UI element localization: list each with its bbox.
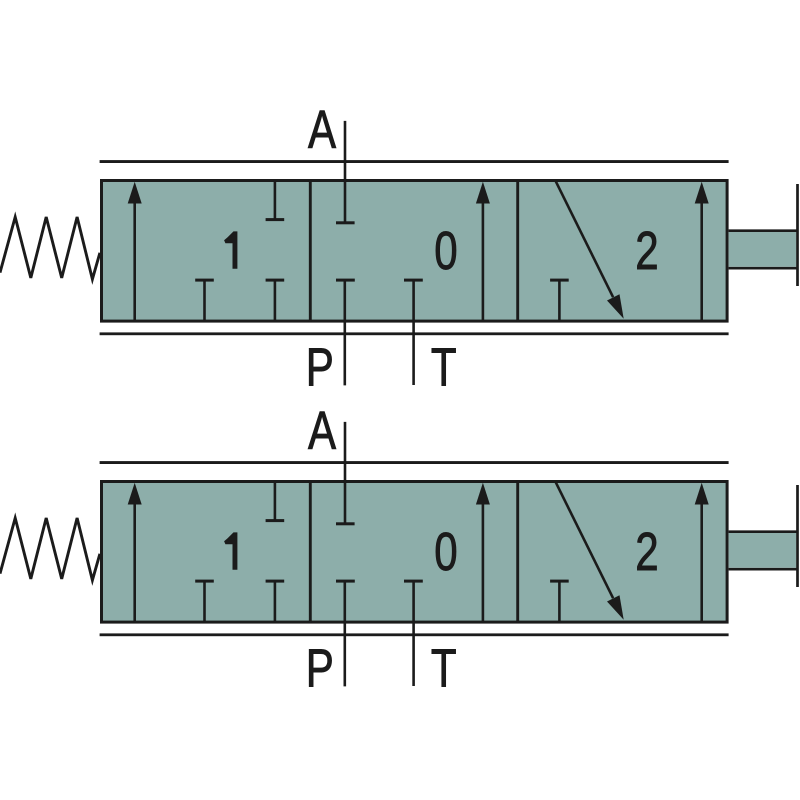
lower rail line (V2) <box>100 633 729 636</box>
divider between position 0 and 2 (V2) <box>516 481 519 624</box>
svg-text:T: T <box>431 338 457 398</box>
port A line with blocked end (V1) <box>336 121 355 224</box>
position 1 blocked port top (V1) <box>266 182 285 221</box>
return spring (V1) <box>0 217 100 279</box>
position 2 diagonal flow arrow (V2) <box>556 482 624 620</box>
actuator end plate line (V1) <box>796 184 799 286</box>
upper rail line (V1) <box>100 160 729 163</box>
port T line with blocked end (V2) <box>404 580 423 686</box>
port A line with blocked end (V2) <box>336 422 355 525</box>
divider between position 0 and 2 (V1) <box>516 180 519 323</box>
return spring (V2) <box>0 518 100 580</box>
position 2 flow arrow up right (V2) <box>695 483 709 622</box>
port P line with blocked end (V2) <box>336 580 355 687</box>
svg-text:2: 2 <box>635 221 658 281</box>
position 1 blocked port bottom left (V1) <box>195 279 214 321</box>
lower rail line (V1) <box>100 332 729 335</box>
hydraulic valve symbol V1 (upper) <box>0 100 798 398</box>
upper rail line (V2) <box>100 461 729 464</box>
svg-text:0: 0 <box>434 221 457 281</box>
position 2 diagonal flow arrow (V1) <box>556 181 624 319</box>
actuator stem (V2) <box>729 532 798 570</box>
actuator stem (V1) <box>729 231 798 269</box>
position 1 blocked port bottom right (V2) <box>266 580 285 622</box>
position 2 blocked port bottom (V2) <box>550 580 569 622</box>
position 1 flow arrow up (V1) <box>128 182 142 321</box>
divider between position 1 and 0 (V1) <box>309 180 312 323</box>
svg-text:A: A <box>308 100 337 160</box>
valve body (3-position envelope) (V2) <box>102 482 728 623</box>
svg-text:0: 0 <box>434 522 457 582</box>
position 2 flow arrow up right (V1) <box>695 182 709 321</box>
position 0 flow arrow up (V2) <box>476 483 490 622</box>
svg-text:P: P <box>306 338 334 398</box>
svg-text:A: A <box>308 401 337 461</box>
position 2 blocked port bottom (V1) <box>550 279 569 321</box>
valve body (3-position envelope) (V1) <box>102 181 728 322</box>
svg-text:T: T <box>431 639 457 699</box>
position 0 flow arrow up (V1) <box>476 182 490 321</box>
hydraulic valve symbol V2 (lower) <box>0 401 798 699</box>
position 1 flow arrow up (V2) <box>128 483 142 622</box>
svg-text:2: 2 <box>635 522 658 582</box>
divider between position 1 and 0 (V2) <box>309 481 312 624</box>
label position 1 (V1) <box>224 231 237 268</box>
actuator end plate line (V2) <box>796 485 799 587</box>
port T line with blocked end (V1) <box>404 279 423 385</box>
position 1 blocked port bottom left (V2) <box>195 580 214 622</box>
svg-text:P: P <box>306 639 334 699</box>
port P line with blocked end (V1) <box>336 279 355 386</box>
label position 1 (V2) <box>224 532 237 569</box>
position 1 blocked port top (V2) <box>266 483 285 522</box>
position 1 blocked port bottom right (V1) <box>266 279 285 321</box>
